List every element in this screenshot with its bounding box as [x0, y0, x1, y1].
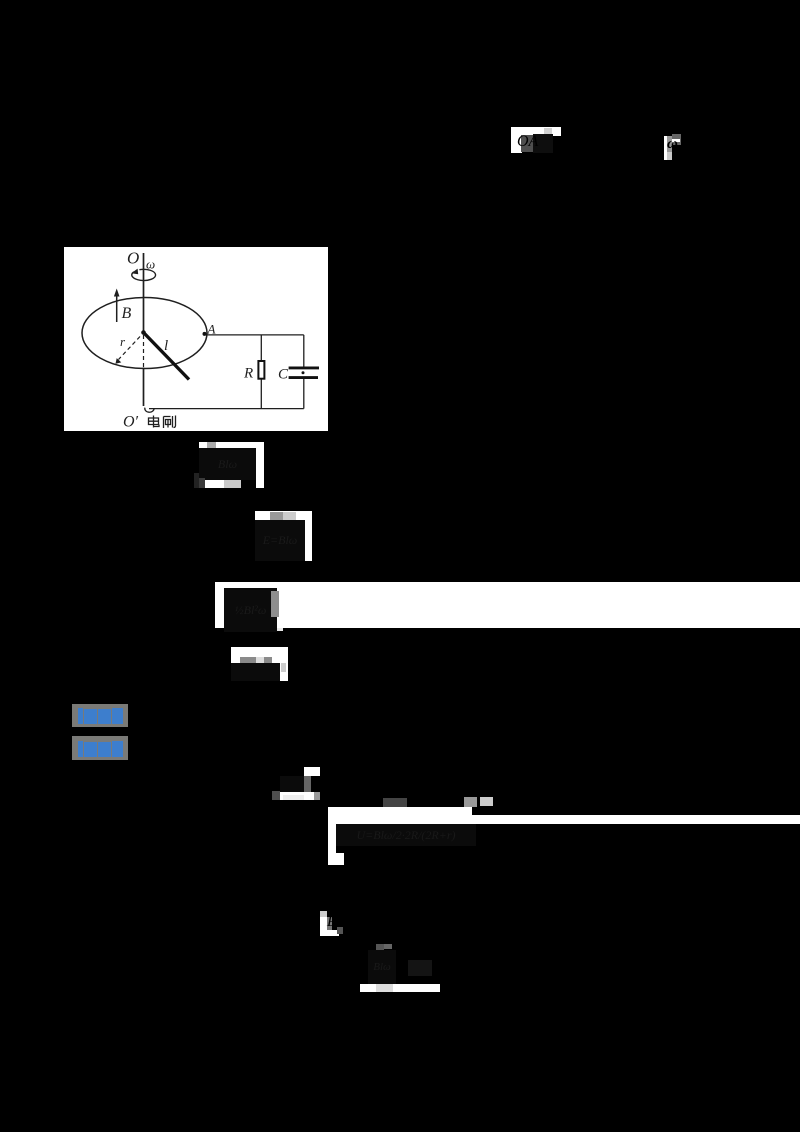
fragment F6: wide white paragraph band with dark formula: [215, 582, 800, 628]
svg-text:O′: O′: [123, 414, 139, 431]
analysis tag box 【解析】: [72, 736, 128, 760]
fragment F5: formula remnant E=Blω/2: [255, 511, 312, 520]
arrowhead of rotation arc: [131, 269, 138, 275]
figure: rotating disc generator with circuit: [64, 247, 328, 431]
svg-text:A: A: [207, 322, 216, 337]
svg-text:B: B: [122, 305, 132, 322]
wire: capacitor branch lower: [303, 379, 305, 409]
axis shaft lower: [143, 368, 145, 407]
dashed axis below center: [143, 335, 145, 368]
fragment F7: formula remnant: [231, 647, 288, 663]
svg-text:R: R: [243, 366, 253, 382]
wire bottom return to brush: [149, 408, 304, 410]
label 电刷 (brush) drawn strokes: [149, 416, 176, 429]
arrowhead of B arrow: [114, 289, 120, 297]
fragment F11: formula remnant with bottom strip: [376, 944, 384, 953]
svg-text:ω: ω: [146, 257, 155, 272]
B field arrow: [116, 294, 118, 322]
fragment F2: formula image remnant "ω" top right: [664, 136, 667, 160]
rotation arrow ω arc: [132, 269, 156, 280]
axis O-O' shaft upper: [143, 253, 145, 334]
wire: capacitor branch upper: [303, 335, 305, 367]
capacitor polarity dot: [302, 371, 305, 374]
svg-text:C: C: [278, 367, 289, 383]
fragment F9: wide formula line U = ...: [328, 807, 472, 824]
brush hook: [145, 408, 154, 413]
fragment F1: formula image remnant "OA" top area: [511, 127, 561, 136]
fragment F4: formula remnant below figure: [199, 442, 256, 448]
capacitor C top plate: [289, 366, 319, 369]
svg-text:l: l: [164, 338, 168, 354]
node A dot: [203, 332, 207, 336]
rod l from center to rim: [144, 333, 190, 380]
fragment F8: formula remnant: [304, 767, 320, 776]
radius r dashed arrow: [119, 337, 141, 360]
svg-text:O: O: [127, 249, 139, 268]
capacitor C bottom plate: [289, 376, 318, 379]
resistor R body: [258, 361, 264, 379]
svg-text:r: r: [120, 334, 126, 349]
wire top: A to capacitor branch: [205, 334, 304, 336]
fragment F10: formula remnant E: [320, 911, 327, 917]
wire: resistor branch vertical: [260, 335, 262, 409]
center pivot dot: [141, 330, 146, 335]
answer tag box 【答案】: [72, 704, 128, 727]
arrowhead of r arrow: [116, 358, 122, 364]
disc ellipse: [82, 298, 207, 369]
